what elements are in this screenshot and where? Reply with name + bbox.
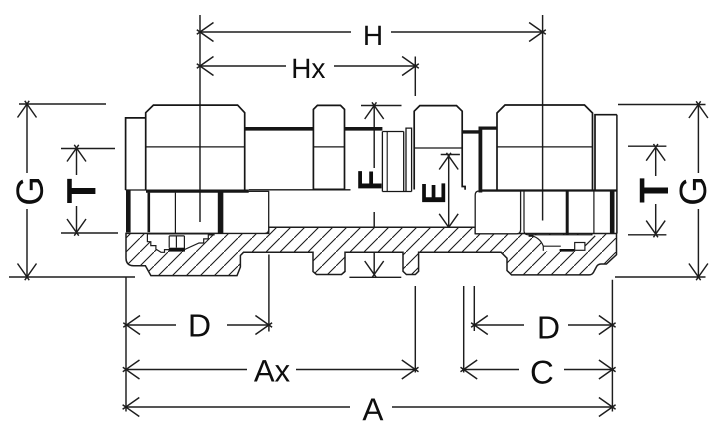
wire: D-right left extension xyxy=(473,286,475,331)
arrow D-left right xyxy=(255,316,272,335)
label G left xyxy=(16,179,43,204)
wire: extension line x=415.3 upper xyxy=(414,57,416,97)
tube segment 1 (thick) xyxy=(245,127,314,131)
ferrule pocket left (white) xyxy=(147,234,214,252)
nut B1 mid line xyxy=(146,146,245,148)
wire: extension line x=415.3 lower xyxy=(414,286,416,373)
dimension G left line xyxy=(26,104,28,277)
center hex body xyxy=(414,106,465,190)
dimension E line xyxy=(448,156,450,227)
nut B1 (left) xyxy=(146,105,245,190)
arrow T-right down xyxy=(646,221,665,238)
nut B2 bottom line xyxy=(482,189,617,191)
right nut B2 xyxy=(497,105,593,190)
ferrule gasket bar left (thick black) xyxy=(169,248,185,251)
arrow T-left up xyxy=(67,145,86,162)
wire: F top extension xyxy=(361,105,402,107)
wire: T-left bottom extension xyxy=(61,232,118,234)
arrow D-right right xyxy=(599,316,616,335)
tube segment 3 (thick, lower) xyxy=(462,130,478,133)
thread counterbore box left (white) xyxy=(223,191,269,233)
label A xyxy=(362,399,383,421)
adapter cylinder xyxy=(382,132,411,192)
wire: T-right top extension xyxy=(628,145,666,147)
ferrule pocket outline left xyxy=(147,234,214,252)
retainer corner right (thick) xyxy=(529,234,534,236)
under-nut vertical thick left xyxy=(148,193,151,233)
dimension D right line xyxy=(474,324,612,326)
label Hx xyxy=(293,59,325,78)
label D left xyxy=(191,314,210,336)
arrow A right xyxy=(599,398,616,417)
under-nut vertical thick right xyxy=(566,190,569,235)
arrow G-left up xyxy=(18,101,37,118)
collar lower thick bar right xyxy=(610,190,615,233)
body section (hatched) xyxy=(126,227,617,275)
arrow D-right left xyxy=(471,316,488,335)
label T right xyxy=(640,178,668,202)
retainer bump right xyxy=(575,243,585,251)
wire: E top extension xyxy=(441,154,460,156)
collar lower thick bar left xyxy=(126,190,131,232)
arrow H left xyxy=(197,23,214,42)
adapter cylinder inner line xyxy=(386,132,388,192)
arrow T-right up xyxy=(646,144,665,161)
label F xyxy=(358,171,381,188)
ferrule ledge line right xyxy=(543,245,561,247)
label T left xyxy=(67,179,95,203)
arrow D-left left xyxy=(123,316,140,335)
wire: C left extension xyxy=(463,286,465,373)
ferrule diagonal right xyxy=(585,236,595,246)
wire: G-right top extension xyxy=(618,104,706,106)
under-nut vertical thin left xyxy=(174,193,176,234)
center hex mid line xyxy=(414,147,462,149)
under-nut channel right xyxy=(524,190,593,235)
washer ring xyxy=(406,128,412,191)
ferrule gasket bar right (thick black) xyxy=(560,249,575,252)
right body edge xyxy=(616,115,618,234)
collar bottom line left xyxy=(126,189,146,191)
wire: tube lower line xyxy=(249,189,351,191)
arrow A left xyxy=(123,398,140,417)
dimension H line xyxy=(200,31,543,33)
arrow T-left down xyxy=(67,219,86,236)
label C xyxy=(532,360,553,383)
dimension G right line xyxy=(697,105,699,278)
ferrule fillet edge right xyxy=(529,235,544,251)
wire: extension line x=200 (tube end, left) xyxy=(199,15,201,222)
wire: extension line x=126 xyxy=(125,278,127,412)
hex sleeve left mid line xyxy=(313,146,344,148)
dimension A line xyxy=(126,406,613,408)
nut B1 bottom (thick) xyxy=(146,190,249,193)
arrow E up xyxy=(439,153,458,170)
wire: T-right bottom extension xyxy=(628,234,666,236)
under-nut vertical thin right xyxy=(593,190,595,234)
dimension T left line xyxy=(76,148,78,233)
dimension T right line xyxy=(655,147,657,234)
arrow G-right down xyxy=(689,264,708,281)
arrow Hx right xyxy=(402,57,419,76)
arrow C right xyxy=(599,360,616,379)
arrow E down xyxy=(439,214,458,231)
arrow C left xyxy=(461,360,478,379)
left collar xyxy=(126,118,146,190)
arrow H right xyxy=(529,23,546,42)
dimension D left line xyxy=(127,324,269,326)
ferrule pocket outline right xyxy=(528,235,595,252)
arrow F up xyxy=(365,102,384,119)
arrow Ax right xyxy=(402,360,419,379)
tube segment 2 (thick) xyxy=(345,127,383,131)
label E xyxy=(422,183,445,202)
wire: G-left bottom extension xyxy=(9,276,135,278)
ferrule internal lines left xyxy=(169,236,184,250)
ferrule pocket right (white) xyxy=(528,234,595,251)
dimension Ax line xyxy=(126,369,415,371)
wire: extension line x=542.6 (tube end, right) xyxy=(542,15,544,221)
arrow G-left down xyxy=(18,264,37,281)
wire: G-left top extension xyxy=(19,103,106,105)
arrow G-right up xyxy=(689,101,708,118)
wire: extension line x=612.4 xyxy=(611,280,613,412)
wire: G-right bottom extension xyxy=(615,276,706,278)
label D right xyxy=(540,316,559,338)
wire: F bottom extension xyxy=(349,276,401,278)
arrow Hx left xyxy=(197,57,214,76)
wire: D-left right extension xyxy=(268,255,270,332)
ferrule step line left xyxy=(175,236,177,248)
tube segment 4 (thick, upper) xyxy=(479,127,497,130)
right collar xyxy=(595,115,617,190)
arrow Ax left xyxy=(123,360,140,379)
dimension C line xyxy=(464,369,613,371)
dimension Hx line xyxy=(200,65,416,67)
label Ax xyxy=(254,360,290,381)
wire: T-left top extension xyxy=(61,148,115,150)
tube end wall (thick vertical) xyxy=(478,127,482,193)
thread counterbore box right (white) xyxy=(475,191,520,234)
arrow F down xyxy=(365,261,384,278)
under-nut vertical thick bar (tube wall end) left xyxy=(218,190,223,234)
hex sleeve left xyxy=(313,105,344,189)
dimension F line xyxy=(373,106,375,275)
label H xyxy=(365,26,381,45)
label G right xyxy=(679,179,706,204)
nut B2 mid line xyxy=(497,146,593,148)
